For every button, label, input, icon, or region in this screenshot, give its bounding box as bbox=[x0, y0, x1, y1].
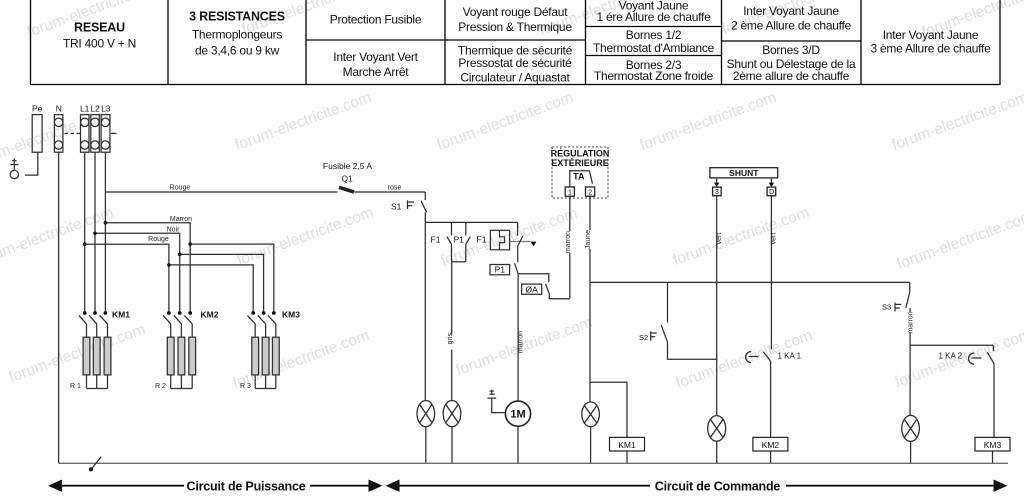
svg-text:rose: rose bbox=[388, 185, 402, 192]
svg-text:forum-electricite.com: forum-electricite.com bbox=[890, 89, 1024, 154]
wire control top branch bbox=[425, 221, 517, 223]
legend table borders bbox=[30, 0, 1001, 85]
svg-text:KM2: KM2 bbox=[201, 310, 219, 320]
lamp H1 bbox=[417, 401, 435, 427]
contact P1 pressostat bbox=[466, 222, 471, 261]
thermostat TA contact bbox=[570, 171, 593, 187]
svg-text:marron: marron bbox=[517, 331, 524, 353]
wire S3 down to lamp H5 bbox=[909, 308, 911, 415]
contactor KM3 bbox=[247, 311, 275, 337]
svg-text:marron: marron bbox=[565, 231, 572, 253]
wire L3 down bbox=[104, 152, 106, 313]
legend cell Voyant rouge Defaut bbox=[458, 5, 572, 34]
neutral rail tap dot bbox=[89, 467, 93, 471]
wire lamp H1 to rail bbox=[425, 427, 427, 464]
svg-text:forum-electricite.com: forum-electricite.com bbox=[638, 89, 779, 154]
svg-text:Pression & Thermique: Pression & Thermique bbox=[458, 20, 572, 34]
legend cell Bornes 2/3 Thermostat Zone froide bbox=[594, 58, 714, 83]
svg-text:Bornes 1/2: Bornes 1/2 bbox=[626, 28, 682, 42]
svg-text:Jaune: Jaune bbox=[585, 230, 592, 249]
node KM2 marron junction dot bbox=[188, 242, 192, 246]
svg-text:F1: F1 bbox=[431, 235, 441, 245]
fuse Q1 bbox=[339, 187, 354, 192]
svg-text:Rouge: Rouge bbox=[148, 236, 169, 243]
wire 1M to rail bbox=[517, 426, 519, 463]
shunt leg 3 arrow bbox=[714, 178, 719, 187]
svg-text:2 ème Allure de chauffe: 2 ème Allure de chauffe bbox=[731, 19, 852, 33]
svg-text:forum-electricite.com: forum-electricite.com bbox=[7, 321, 148, 386]
wire noir branch to KM3 bbox=[180, 254, 264, 313]
node L2 junction dot bbox=[93, 232, 97, 236]
svg-text:Thermostat d'Ambiance: Thermostat d'Ambiance bbox=[593, 41, 715, 55]
terminal 2 bbox=[586, 187, 595, 196]
svg-text:gris: gris bbox=[447, 333, 454, 345]
watermark row 3 bbox=[7, 314, 1024, 392]
ground electrode symbol bbox=[10, 158, 18, 178]
watermark row 1 bbox=[0, 89, 1024, 171]
wire R3 star point bbox=[255, 375, 276, 389]
wire 1KA2 to KM3 coil bbox=[993, 364, 995, 437]
svg-text:N: N bbox=[56, 104, 62, 114]
terminal L1 bbox=[81, 115, 90, 153]
svg-text:Pressostat de sécurité: Pressostat de sécurité bbox=[458, 56, 572, 70]
svg-text:Circuit de Commande: Circuit de Commande bbox=[655, 480, 781, 494]
wire L2 down bbox=[94, 152, 96, 313]
svg-text:TA: TA bbox=[573, 172, 585, 182]
node KM2 noir junction dot bbox=[178, 253, 182, 257]
svg-text:2ème allure de chauffe: 2ème allure de chauffe bbox=[733, 69, 850, 83]
svg-text:Inter Voyant Vert: Inter Voyant Vert bbox=[333, 50, 418, 64]
P1 box label bbox=[490, 265, 510, 275]
wire rouge branch to KM3 bbox=[169, 265, 253, 313]
switch S3 bbox=[895, 282, 910, 311]
legend cell Voyant Jaune 1ere Allure bbox=[596, 0, 711, 24]
thermal relay F1 box bbox=[490, 230, 509, 250]
svg-text:P1: P1 bbox=[454, 235, 465, 245]
svg-text:1: 1 bbox=[568, 189, 572, 196]
svg-text:3: 3 bbox=[715, 189, 719, 196]
wire S1 down to lamp1 bbox=[424, 212, 426, 400]
relay contact 1KA2 bbox=[969, 345, 995, 364]
svg-text:KM3: KM3 bbox=[282, 310, 300, 320]
wire R2 star point bbox=[171, 375, 193, 389]
coil KM3 bbox=[975, 437, 1010, 451]
wire branch to 1KA2 bbox=[910, 344, 993, 346]
wire 1KA1 to KM2 coil bbox=[770, 362, 772, 438]
svg-text:Thermostat Zone froide: Thermostat Zone froide bbox=[594, 69, 714, 83]
svg-text:marron: marron bbox=[907, 311, 914, 333]
watermark row 0 bbox=[25, 0, 1024, 41]
node L3 junction dot bbox=[104, 221, 108, 225]
svg-text:Marron: Marron bbox=[170, 216, 192, 223]
wire branch to KM1 coil bbox=[590, 382, 627, 437]
motor 1M bbox=[505, 401, 530, 426]
wire L1 down bbox=[84, 152, 86, 313]
relay contact 1KA1 bbox=[746, 352, 771, 363]
resistor R3 elements bbox=[252, 337, 279, 375]
wire KM1 coil to rail bbox=[626, 451, 628, 463]
mechanical link dashes N-L1 bbox=[65, 132, 81, 134]
label gris vertical bbox=[447, 333, 455, 350]
mechanical link dash right of L3 bbox=[111, 132, 117, 134]
svg-text:forum-electricite.com: forum-electricite.com bbox=[671, 204, 812, 269]
svg-text:SHUNT: SHUNT bbox=[729, 168, 759, 178]
contactor KM1 bbox=[79, 311, 108, 337]
svg-text:Rouge: Rouge bbox=[170, 185, 191, 192]
svg-text:RÉGULATION: RÉGULATION bbox=[551, 149, 610, 159]
svg-text:R 2: R 2 bbox=[155, 383, 166, 390]
svg-text:Inter Voyant Jaune: Inter Voyant Jaune bbox=[883, 28, 979, 42]
coil KM2 bbox=[753, 437, 788, 451]
ground symbol 1M bbox=[487, 390, 505, 413]
resistor R2 elements bbox=[167, 337, 195, 375]
arrow circuit de puissance bbox=[48, 477, 383, 494]
svg-text:KM1: KM1 bbox=[112, 310, 130, 320]
wire Rouge phase branch bbox=[85, 244, 169, 313]
switch S2 bbox=[651, 282, 717, 359]
svg-text:forum-electricite.com: forum-electricite.com bbox=[0, 204, 116, 269]
regulation exterieure dashed box bbox=[551, 147, 610, 198]
svg-text:L3: L3 bbox=[101, 104, 111, 114]
wire Rouge control feed bbox=[105, 191, 337, 193]
label marron vertical TA1 bbox=[565, 231, 573, 253]
node L1 junction dot bbox=[83, 242, 87, 246]
svg-text:R 1: R 1 bbox=[70, 383, 81, 390]
svg-text:3 RESISTANCES: 3 RESISTANCES bbox=[189, 10, 285, 24]
svg-text:2: 2 bbox=[588, 189, 592, 196]
svg-text:L2: L2 bbox=[90, 104, 100, 114]
svg-text:TRI 400 V + N: TRI 400 V + N bbox=[63, 37, 136, 51]
svg-text:Bornes 3/D: Bornes 3/D bbox=[762, 43, 820, 57]
legend cell Inter Voyant Jaune 3eme Allure bbox=[870, 28, 991, 56]
svg-text:1 KA 1: 1 KA 1 bbox=[778, 352, 802, 361]
svg-text:KM3: KM3 bbox=[984, 440, 1002, 450]
svg-text:S1: S1 bbox=[391, 202, 402, 212]
svg-text:Q1: Q1 bbox=[341, 174, 353, 184]
svg-text:RESEAU: RESEAU bbox=[74, 21, 125, 35]
wire lamp H2 to rail bbox=[451, 427, 453, 464]
arrow circuit de commande bbox=[386, 477, 1008, 494]
svg-text:F1: F1 bbox=[477, 235, 487, 245]
svg-text:Inter Voyant Jaune: Inter Voyant Jaune bbox=[743, 4, 839, 18]
shunt leg D arrow bbox=[769, 178, 774, 187]
terminal D bbox=[767, 187, 776, 196]
svg-text:Circuit de Puissance: Circuit de Puissance bbox=[187, 480, 306, 494]
svg-text:ØA: ØA bbox=[525, 284, 538, 294]
wire Pe to ground bbox=[25, 152, 38, 175]
svg-text:D: D bbox=[769, 189, 774, 196]
thermal relay trip linkage bbox=[510, 242, 537, 247]
legend cell Thermique de securite bbox=[458, 44, 573, 85]
svg-text:Voyant rouge Défaut: Voyant rouge Défaut bbox=[463, 5, 569, 19]
wire rose after Q1 bbox=[354, 191, 425, 193]
svg-text:vert: vert bbox=[771, 233, 778, 245]
legend cell 3 RESISTANCES bbox=[189, 10, 285, 58]
resistor R1 elements bbox=[83, 337, 111, 375]
wire TA terminal 2 jaune bbox=[589, 196, 591, 401]
contact F1 relay NC blade bbox=[518, 222, 523, 262]
lamp H3 bbox=[582, 402, 600, 427]
svg-text:KM1: KM1 bbox=[618, 440, 636, 450]
svg-text:P1: P1 bbox=[495, 265, 506, 275]
coil KM1 bbox=[610, 437, 645, 451]
svg-text:S3: S3 bbox=[882, 303, 891, 312]
wire lamp H5 to rail bbox=[910, 441, 912, 463]
wire Noir phase branch bbox=[95, 233, 180, 313]
terminal L2 bbox=[91, 115, 100, 153]
label marron vertical S3 bbox=[909, 312, 915, 333]
svg-text:L1: L1 bbox=[80, 104, 90, 114]
svg-text:3 ème Allure de chauffe: 3 ème Allure de chauffe bbox=[870, 42, 991, 56]
svg-text:Marche Arrêt: Marche Arrêt bbox=[343, 65, 410, 79]
wire KM2 coil to rail bbox=[770, 451, 772, 463]
terminal N bbox=[54, 115, 63, 153]
watermark row 2 bbox=[0, 204, 1024, 273]
wire F1-P1 join bbox=[452, 261, 466, 263]
svg-text:1 ére Allure de chauffe: 1 ére Allure de chauffe bbox=[596, 10, 711, 24]
svg-text:Thermoplongeurs: Thermoplongeurs bbox=[192, 28, 283, 42]
svg-text:de 3,4,6 ou 9 kw: de 3,4,6 ou 9 kw bbox=[195, 44, 280, 58]
contactor KM2 bbox=[163, 311, 192, 337]
svg-text:R 3: R 3 bbox=[240, 383, 251, 390]
legend cell RESEAU TRI 400 V + N bbox=[63, 21, 136, 51]
label vert vertical D bbox=[771, 231, 779, 246]
legend cell Bornes 3/D Shunt ou Delestage bbox=[727, 43, 856, 83]
wire jaune bus horizontal bbox=[590, 281, 910, 283]
svg-text:vert: vert bbox=[716, 233, 723, 245]
OA box label bbox=[522, 284, 542, 294]
svg-text:KM2: KM2 bbox=[762, 440, 780, 450]
wire R1 star point bbox=[87, 375, 108, 389]
contact P1 securite bbox=[515, 263, 519, 401]
svg-text:Noir: Noir bbox=[167, 227, 181, 234]
svg-text:forum-electricite.com: forum-electricite.com bbox=[895, 208, 1024, 273]
svg-text:1M: 1M bbox=[510, 409, 525, 421]
legend cell Inter Voyant Jaune 2eme Allure bbox=[731, 4, 852, 33]
node KM2 rouge junction dot bbox=[167, 263, 171, 267]
label vert vertical 3 bbox=[716, 231, 724, 246]
wire Marron phase branch bbox=[105, 223, 190, 313]
wire P1 to OA branch bbox=[518, 274, 549, 282]
wire TA terminal 1 marron bbox=[569, 196, 571, 299]
svg-text:1 KA 2: 1 KA 2 bbox=[939, 352, 963, 361]
neutral rail tap blade bbox=[92, 457, 101, 469]
terminal 3 bbox=[713, 187, 722, 196]
wire marron branch to KM3 bbox=[190, 244, 274, 313]
contact F1 thermique bbox=[447, 222, 452, 261]
shunt box bbox=[710, 168, 778, 178]
switch S1 bbox=[408, 192, 427, 212]
wire terminal 3 vert down bbox=[716, 196, 718, 416]
neutral rail bbox=[59, 462, 1008, 464]
wire KM3 coil to rail bbox=[992, 451, 994, 463]
svg-text:forum-electricite.com: forum-electricite.com bbox=[235, 204, 376, 269]
label Jaune vertical TA2 bbox=[585, 230, 593, 249]
terminal L3 bbox=[101, 115, 110, 153]
wire down to lamp2 bbox=[451, 262, 453, 401]
wire terminal D vert down bbox=[770, 196, 772, 350]
svg-text:S2: S2 bbox=[639, 333, 648, 342]
svg-text:forum-electricite.com: forum-electricite.com bbox=[435, 89, 576, 154]
svg-text:forum-electricite.com: forum-electricite.com bbox=[233, 89, 374, 154]
terminal Pe bbox=[32, 115, 42, 153]
svg-text:Protection Fusible: Protection Fusible bbox=[330, 13, 422, 27]
svg-text:Pe: Pe bbox=[32, 104, 43, 114]
terminal 1 bbox=[565, 187, 574, 196]
wire N down to neutral rail bbox=[58, 152, 60, 463]
svg-text:Fusible 2,5 A: Fusible 2,5 A bbox=[323, 161, 372, 171]
lamp H4 bbox=[708, 416, 726, 442]
lamp H2 bbox=[443, 401, 461, 427]
contact OA aquastat bbox=[546, 284, 570, 299]
legend cell Bornes 1/2 Thermostat d'Ambiance bbox=[593, 28, 715, 55]
wire lamp H4 to rail bbox=[716, 441, 718, 463]
svg-text:Circulateur / Aquastat: Circulateur / Aquastat bbox=[460, 71, 570, 85]
svg-text:EXTÉRIEURE: EXTÉRIEURE bbox=[551, 158, 609, 168]
legend cell Inter Voyant Vert Marche Arret bbox=[333, 50, 418, 79]
lamp H5 bbox=[902, 415, 920, 441]
wire lamp H3 to rail bbox=[590, 427, 592, 464]
